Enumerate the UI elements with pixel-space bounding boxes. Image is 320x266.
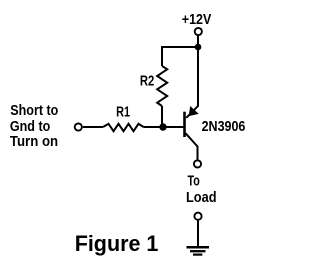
terminal collector <box>194 160 201 167</box>
label Figure 1 <box>75 231 159 256</box>
terminal input <box>75 123 82 130</box>
resistor R2 <box>157 66 167 106</box>
transistor Q1 2N3906 <box>185 106 199 147</box>
wire R2 bottom <box>161 106 163 127</box>
ground <box>187 247 210 254</box>
label 2N3906 <box>202 119 246 135</box>
wire to ground <box>197 221 199 247</box>
svg-text:Load: Load <box>186 190 217 206</box>
label To Load <box>186 174 217 206</box>
svg-text:R1: R1 <box>116 105 130 121</box>
svg-text:Short to: Short to <box>10 103 58 119</box>
svg-text:+12V: +12V <box>182 12 212 28</box>
wire collector <box>197 146 199 160</box>
terminal load return <box>194 213 201 220</box>
node junction top <box>195 44 202 51</box>
svg-text:Turn on: Turn on <box>10 134 58 150</box>
svg-text:Gnd to: Gnd to <box>10 119 51 135</box>
wire +12V vertical <box>197 35 199 106</box>
wire R1 to base <box>144 126 185 128</box>
svg-text:To: To <box>188 174 200 190</box>
resistor R1 <box>103 124 144 131</box>
terminal +12V <box>195 28 202 35</box>
wire top branch <box>162 47 198 66</box>
label R2 <box>140 73 154 89</box>
svg-text:2N3906: 2N3906 <box>202 119 246 135</box>
label +12V <box>182 12 212 28</box>
label Short to Gnd to Turn on <box>10 103 59 150</box>
label R1 <box>116 105 130 121</box>
svg-text:Figure 1: Figure 1 <box>75 231 159 256</box>
wire input to R1 <box>83 126 103 128</box>
node junction base <box>159 123 166 130</box>
svg-text:R2: R2 <box>140 73 154 89</box>
